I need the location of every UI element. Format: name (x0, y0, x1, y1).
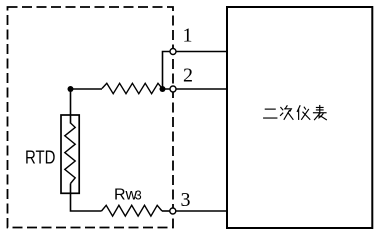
wire: RTD bottom down and right to resistor Rw3 (71, 184, 102, 212)
resistor (lead wire) between node B and node A (102, 83, 163, 93)
wire: terminal 3 to instrument (173, 210, 227, 212)
wire: resistor Rw3 to terminal 3 (162, 210, 173, 212)
dashed sensor enclosure boundary (8, 7, 174, 228)
wire: node A to terminal 2 and on to instrument (163, 88, 228, 90)
svg-text:1: 1 (183, 25, 193, 47)
junction node A (160, 86, 166, 92)
wire: node B down to RTD (70, 89, 72, 124)
label Rw3 (114, 187, 142, 204)
terminal 3 (170, 208, 176, 214)
wire: branch from node A up to terminal 1 (163, 52, 174, 90)
junction node B (68, 86, 74, 92)
terminal 1 (170, 49, 176, 55)
label 二次仪表 (drawn glyph strokes) (264, 105, 327, 119)
resistor Rw3 (102, 205, 163, 216)
RTD body (61, 115, 79, 193)
svg-text:3: 3 (135, 189, 142, 203)
instrument box (二次仪表) (227, 7, 372, 228)
wire: node B to lead resistor (71, 88, 103, 90)
wire: terminal 1 to instrument (173, 51, 227, 53)
terminal 2 (170, 86, 176, 92)
svg-text:3: 3 (181, 189, 191, 211)
svg-text:RTD: RTD (25, 148, 56, 168)
svg-text:2: 2 (183, 65, 193, 87)
